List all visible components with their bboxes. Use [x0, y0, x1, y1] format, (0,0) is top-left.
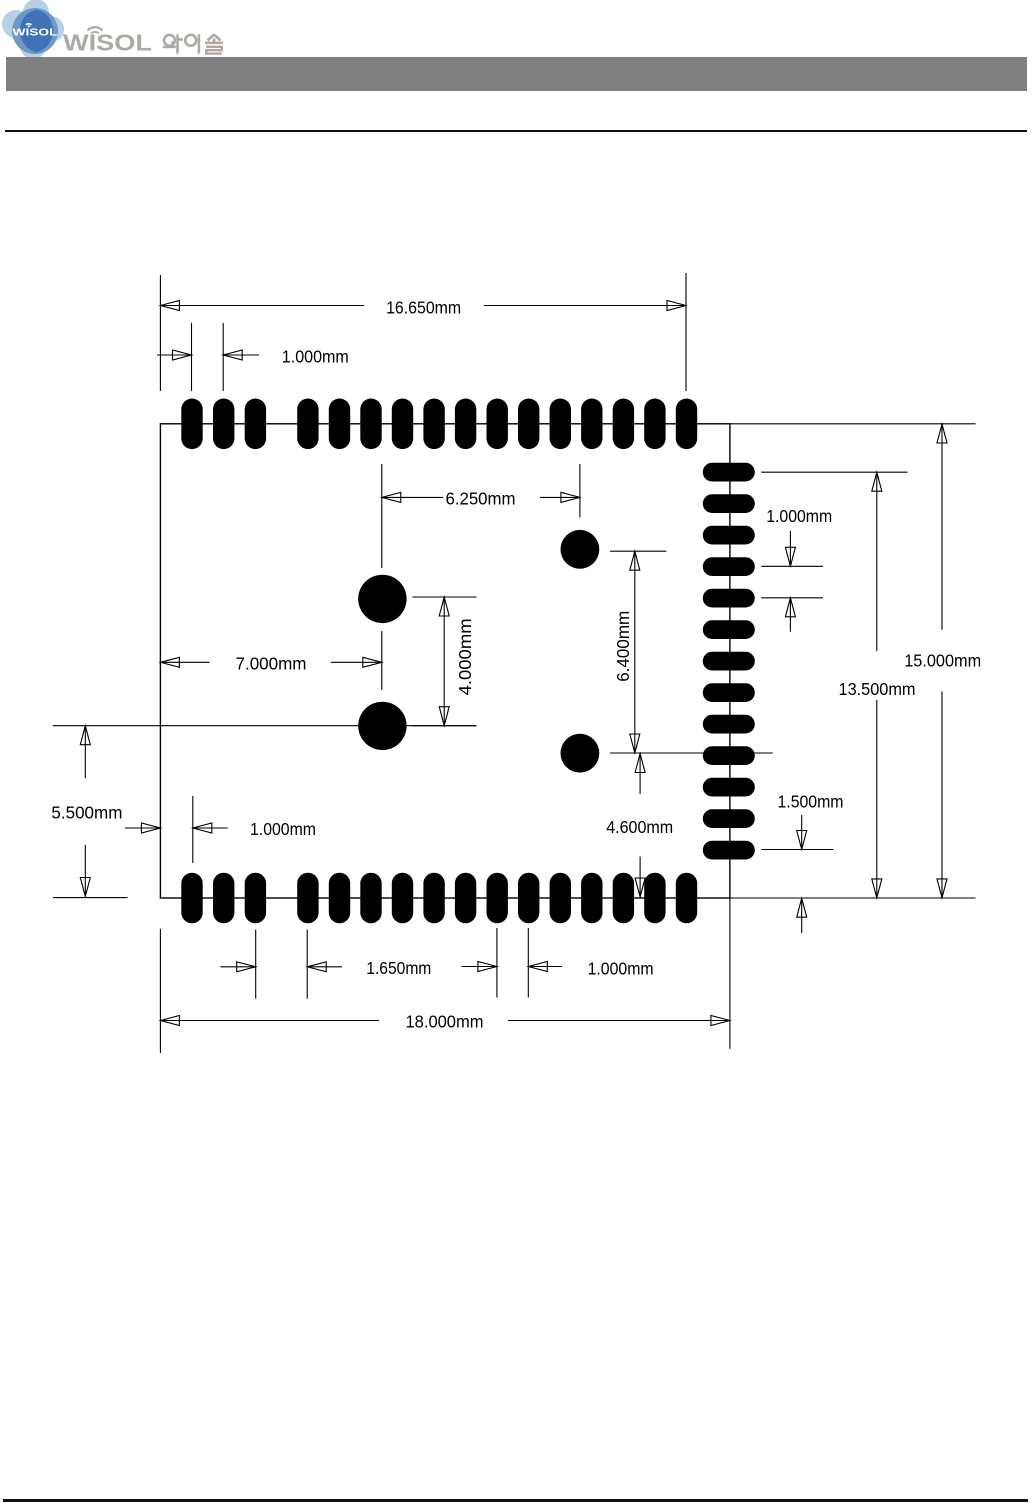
- svg-text:1.000mm: 1.000mm: [250, 819, 316, 839]
- dimension 15.000mm (overall height): [937, 424, 947, 898]
- header gray bar: [6, 57, 1027, 91]
- svg-text:4.600mm: 4.600mm: [606, 817, 673, 837]
- dimension 4.600mm (hole to bottom edge): [635, 754, 645, 898]
- svg-text:6.400mm: 6.400mm: [613, 611, 633, 682]
- dimension 7.000mm (left edge to hole center): [160, 631, 381, 690]
- mounting hole right top (1.2mm): [561, 530, 600, 569]
- right pad column: 13 stadium pads straddling right edge: [703, 463, 755, 860]
- bottom pad row: 16 stadium pads straddling bottom edge: [181, 873, 697, 924]
- module outline (18.000mm x 15.000mm land pattern boundary): [160, 424, 730, 898]
- mounting hole right bottom (1.2mm): [561, 734, 600, 773]
- dimension 1.000mm (right pad pitch): [761, 531, 823, 632]
- top pad row: 16 stadium pads straddling top edge: [181, 399, 697, 450]
- svg-text:1.650mm: 1.650mm: [366, 958, 431, 978]
- dimension 18.000mm (overall width): [160, 1016, 730, 1026]
- svg-text:1.000mm: 1.000mm: [588, 958, 654, 978]
- dimension 1.000mm (bottom-left, edge to first pad): [125, 796, 228, 863]
- footer rule: [3, 1499, 1028, 1502]
- logo wordmark hangul 와이솔: [163, 34, 223, 53]
- dimension 13.500mm (first right pad to bottom edge): [761, 472, 907, 898]
- dimension 4.000mm (left hole pair spacing, vertical): [412, 597, 476, 726]
- dimension 16.650mm (top): [160, 273, 686, 391]
- logo wordmark wifi arcs over I: [88, 27, 103, 33]
- svg-text:5.500mm: 5.500mm: [51, 803, 122, 823]
- dimension 6.250mm (hole column spacing): [382, 464, 580, 568]
- extension line: module right edge extended below: [729, 898, 731, 1049]
- svg-text:15.000mm: 15.000mm: [904, 651, 981, 671]
- svg-text:1.000mm: 1.000mm: [282, 347, 349, 367]
- mounting hole left bottom (1.6mm): [358, 702, 406, 750]
- svg-text:1.000mm: 1.000mm: [766, 506, 832, 526]
- dimension 1.000mm (bottom-right pad pitch): [462, 928, 563, 998]
- logo emblem WISOL white text: [13, 23, 58, 39]
- extension line: module left edge extended below: [159, 929, 161, 1053]
- svg-text:13.500mm: 13.500mm: [839, 679, 916, 699]
- header rule: [5, 130, 1027, 132]
- dimension 1.500mm (last right pad to bottom edge): [761, 815, 833, 933]
- svg-text:6.250mm: 6.250mm: [446, 488, 516, 508]
- svg-text:16.650mm: 16.650mm: [386, 298, 461, 318]
- svg-text:7.000mm: 7.000mm: [236, 654, 307, 674]
- svg-text:4.000mm: 4.000mm: [455, 618, 475, 695]
- extension line: module bottom edge extended right: [730, 897, 976, 899]
- svg-text:1.500mm: 1.500mm: [778, 792, 844, 812]
- logo emblem: overlapping blue circles: [2, 0, 64, 59]
- mounting hole left top (1.6mm): [358, 575, 406, 623]
- dimension 5.500mm (hole row to bottom edge, left): [80, 726, 90, 897]
- extension line: module top edge extended right: [730, 423, 976, 425]
- svg-text:18.000mm: 18.000mm: [406, 1012, 484, 1032]
- extension line: bottom-left short segment at module bottom level: [53, 897, 128, 899]
- dimension 1.000mm (top-left pad pitch): [157, 323, 259, 391]
- dimension 6.400mm (right hole pair spacing, vertical): [610, 551, 773, 753]
- extension line: hole-center row through left bottom hole: [53, 725, 477, 727]
- dimension 1.650mm (bottom pad group gap): [220, 930, 342, 999]
